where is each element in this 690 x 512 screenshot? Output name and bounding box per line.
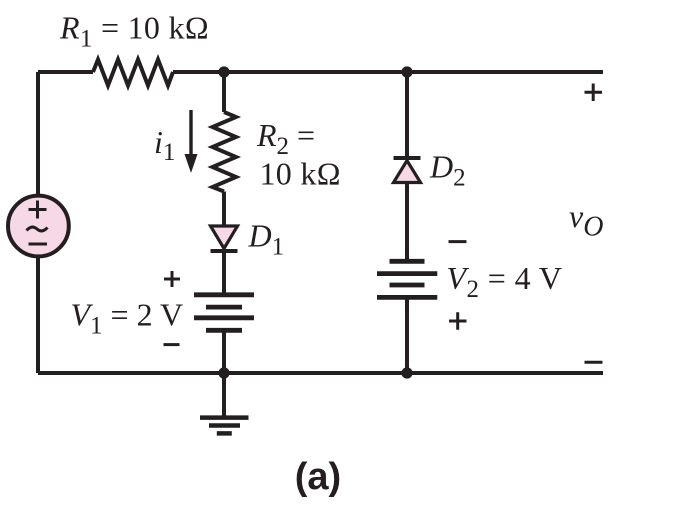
wire V1 to bottom [222,332,226,373]
wire left vertical (source to top) [36,72,40,196]
voltage source Vs (AC symbol) [8,196,69,257]
svg-text:10 kΩ: 10 kΩ [260,155,341,191]
node top-right [401,66,412,77]
wire top-right segment [173,70,603,74]
node bottom-middle [218,367,229,378]
node bottom-right [401,367,412,378]
wire top-left segment [38,70,93,74]
diode D1 [211,226,238,251]
resistor R2 [213,112,237,192]
battery V2 [377,261,437,297]
wire V2 to bottom [405,299,409,373]
minus sign output bottom [585,361,603,364]
wire middle branch top [222,72,226,112]
plus sign above V1 [164,271,180,287]
resistor R1 [93,60,173,86]
diode D2 [394,158,421,183]
node top-middle [218,66,229,77]
plus sign output top [585,84,603,102]
minus sign below V1 [164,343,180,346]
battery V1 [194,295,254,331]
wire bottom [38,371,603,375]
current arrow i1 [185,110,198,173]
wire D1 to V1 [222,251,226,293]
minus sign above V2 [449,240,467,243]
ground [200,373,249,433]
wire left vertical (source to bottom) [36,256,40,373]
wire R2 to D1 [222,192,226,226]
plus sign below V2 [449,312,467,329]
wire right branch top [405,72,409,158]
wire D2 to V2 [405,183,409,260]
svg-text:(a): (a) [295,456,341,498]
